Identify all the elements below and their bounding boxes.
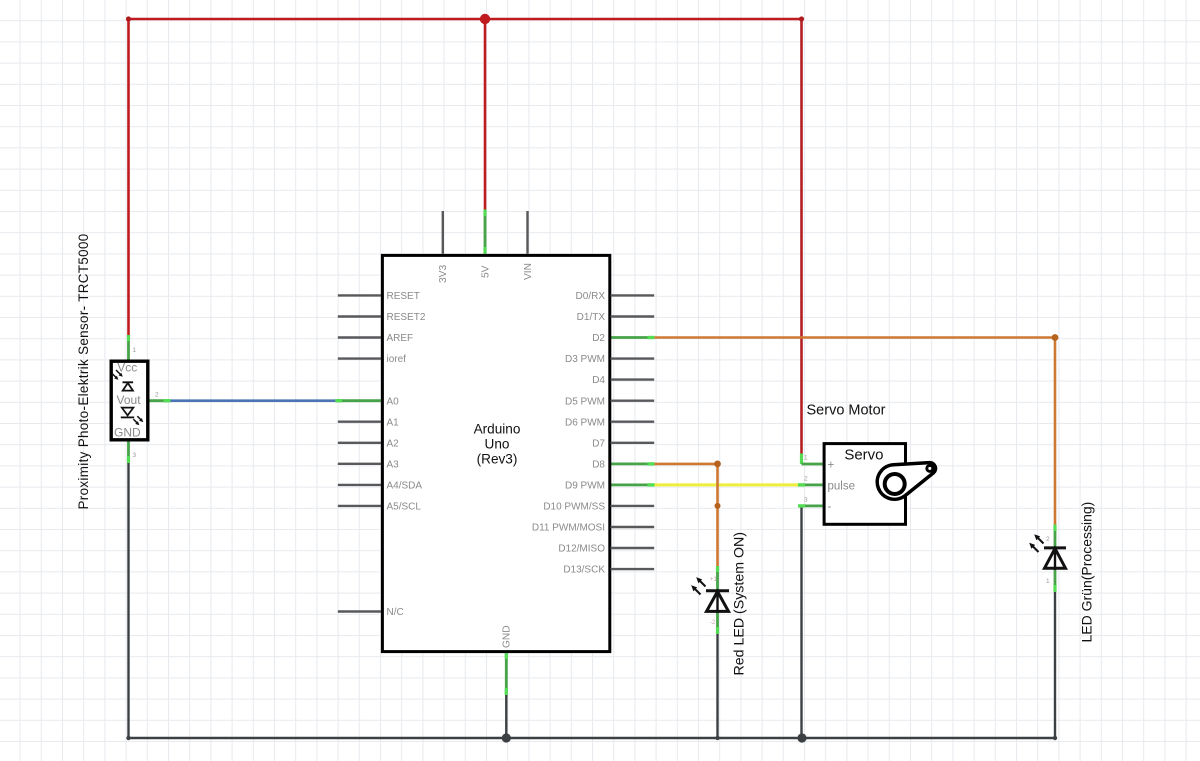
pin ioref stub bbox=[338, 357, 381, 359]
wire: red LED cathode down bbox=[716, 633, 718, 738]
pin D3 stub bbox=[611, 357, 655, 359]
servo horn screw bbox=[927, 465, 933, 471]
svg-text:+: + bbox=[828, 460, 835, 472]
node: gnd rail left corner bbox=[126, 736, 130, 740]
label Arduino Uno (Rev3) bbox=[474, 422, 521, 467]
svg-text:RESET: RESET bbox=[387, 291, 420, 302]
sensor U2 body bbox=[111, 361, 148, 440]
A0 stub green bbox=[335, 399, 381, 402]
svg-text:2: 2 bbox=[1046, 536, 1050, 543]
svg-text:ioref: ioref bbox=[387, 354, 407, 365]
pin AREF stub bbox=[338, 336, 381, 338]
svg-text:2: 2 bbox=[155, 392, 159, 399]
sensor photodiode symbol bbox=[123, 382, 134, 390]
node: orange corner D8 bbox=[714, 461, 721, 468]
red LED pin1 stub bbox=[716, 613, 719, 634]
node: orange corner D2 bbox=[1052, 334, 1059, 341]
pin D13 stub bbox=[611, 568, 655, 570]
svg-text:Vcc: Vcc bbox=[117, 360, 137, 374]
svg-text:Vout: Vout bbox=[117, 393, 142, 407]
LED2 green: cathode bar bbox=[1044, 546, 1066, 549]
svg-text:pulse: pulse bbox=[828, 481, 856, 493]
wire: yellow D9 to servo pulse bbox=[654, 483, 801, 486]
svg-text:N/C: N/C bbox=[387, 607, 404, 618]
svg-text:D0/RX: D0/RX bbox=[576, 291, 606, 302]
node: orange bendpoint bbox=[715, 503, 721, 509]
pin A1 stub bbox=[338, 421, 381, 423]
svg-text:GND: GND bbox=[502, 625, 513, 648]
sensor pin3 stub bbox=[127, 442, 130, 464]
pin A5/SCL stub bbox=[338, 505, 381, 507]
node: red LED junction bbox=[715, 736, 719, 740]
wire: bottom ground rail bbox=[129, 737, 1056, 739]
wire: orange D8 to red LED bbox=[654, 464, 717, 567]
LED1 red: triangle bbox=[707, 592, 729, 612]
node: top rail corner right bbox=[799, 16, 804, 21]
svg-text:VIN: VIN bbox=[523, 263, 534, 280]
svg-text:A0: A0 bbox=[387, 396, 400, 407]
node: gnd rail right corner bbox=[1053, 736, 1057, 740]
sensor pin2 stub bbox=[150, 399, 170, 402]
servo pulse stub bbox=[802, 483, 823, 486]
pin D6 stub bbox=[611, 421, 655, 423]
arduino GND stub green bbox=[505, 653, 508, 696]
red LED pin2 stub bbox=[716, 566, 719, 590]
sensor IR LED symbol bbox=[121, 408, 134, 418]
svg-text:D7: D7 bbox=[592, 438, 605, 449]
svg-text:+1: +1 bbox=[710, 577, 718, 583]
svg-text:2: 2 bbox=[804, 476, 808, 483]
sensor IR LED arrows bbox=[133, 416, 143, 425]
svg-text:D8: D8 bbox=[592, 459, 605, 470]
wire: red vertical to 5V pin bbox=[484, 19, 487, 210]
svg-text:Servo: Servo bbox=[844, 447, 883, 464]
servo horn hub bbox=[885, 474, 905, 494]
svg-text:1: 1 bbox=[133, 347, 137, 354]
servo horn icon bbox=[877, 463, 935, 500]
wire: servo minus down bbox=[800, 506, 802, 738]
pin A3 stub bbox=[338, 463, 381, 465]
svg-text:Uno: Uno bbox=[485, 437, 510, 452]
pin D10 stub bbox=[611, 505, 655, 507]
svg-text:A4/SDA: A4/SDA bbox=[387, 481, 423, 492]
pin D4 stub bbox=[611, 378, 655, 380]
svg-text:A1: A1 bbox=[387, 417, 400, 428]
LED2 green: lead through bbox=[1054, 548, 1056, 570]
D9 stub green bbox=[611, 483, 655, 486]
pin RESET2 stub bbox=[338, 315, 381, 317]
node: 5V junction bbox=[480, 14, 490, 24]
green LED pin2 stub bbox=[1054, 525, 1057, 549]
pin D7 stub bbox=[611, 442, 655, 444]
svg-text:A3: A3 bbox=[387, 459, 400, 470]
svg-text:1: 1 bbox=[804, 455, 808, 462]
svg-text:AREF: AREF bbox=[387, 333, 414, 344]
wire: red vertical to servo + bbox=[800, 19, 803, 454]
wire: top +5V rail bbox=[129, 18, 802, 21]
svg-text:D11 PWM/MOSI: D11 PWM/MOSI bbox=[532, 523, 605, 534]
wire: sensor GND down bbox=[127, 462, 129, 738]
5V stub green bbox=[484, 210, 487, 254]
svg-text:LED Grün(Processing): LED Grün(Processing) bbox=[1079, 502, 1095, 643]
wire: green LED cathode down bbox=[1054, 591, 1056, 738]
green LED pin1 stub bbox=[1054, 570, 1057, 592]
svg-text:A5/SCL: A5/SCL bbox=[387, 502, 422, 513]
arduino U1 body bbox=[382, 255, 609, 651]
servo M1 body bbox=[824, 444, 905, 525]
pin A2 stub bbox=[338, 442, 381, 444]
svg-text:D12/MISO: D12/MISO bbox=[558, 544, 605, 555]
pin D1/TX stub bbox=[611, 315, 655, 317]
LED2 arrows bbox=[1029, 534, 1043, 552]
svg-text:D6 PWM: D6 PWM bbox=[565, 417, 605, 428]
pin D0/RX stub bbox=[611, 294, 655, 296]
sensor photodiode arrows bbox=[112, 370, 123, 380]
svg-text:Red LED (System ON): Red LED (System ON) bbox=[732, 532, 748, 675]
pin VIN stub bbox=[526, 211, 528, 254]
pin 3V3 stub bbox=[442, 211, 444, 254]
svg-text:D1/TX: D1/TX bbox=[577, 312, 606, 323]
pin D11 stub bbox=[611, 526, 655, 528]
LED2 green: triangle bbox=[1045, 549, 1066, 569]
LED1 red: lead through bbox=[716, 591, 718, 613]
svg-text:3: 3 bbox=[133, 452, 137, 459]
svg-text:RESET2: RESET2 bbox=[387, 312, 426, 323]
wire: arduino GND down bbox=[505, 694, 507, 738]
D2 stub green bbox=[611, 336, 655, 339]
svg-text:D9 PWM: D9 PWM bbox=[565, 481, 605, 492]
svg-text:D13/SCK: D13/SCK bbox=[563, 565, 605, 576]
servo minus stub bbox=[802, 504, 823, 507]
svg-text:D4: D4 bbox=[592, 375, 605, 386]
svg-text:GND: GND bbox=[114, 426, 141, 440]
svg-text:3: 3 bbox=[804, 497, 808, 504]
wire: red vertical sensor Vcc bbox=[127, 19, 130, 336]
svg-text:-2: -2 bbox=[710, 620, 716, 626]
servo + stub bbox=[800, 454, 803, 465]
LED1 red: cathode bar bbox=[706, 589, 729, 592]
pin RESET stub bbox=[338, 294, 381, 296]
svg-text:D3 PWM: D3 PWM bbox=[565, 354, 605, 365]
pin D5 stub bbox=[611, 400, 655, 402]
wire: blue Vout to A0 bbox=[170, 399, 336, 402]
pin N/C stub bbox=[338, 610, 381, 612]
wire: orange D2 to green LED bbox=[654, 338, 1055, 526]
svg-text:5V: 5V bbox=[481, 265, 492, 278]
pin D12 stub bbox=[611, 547, 655, 549]
svg-text:A2: A2 bbox=[387, 438, 400, 449]
svg-text:(Rev3): (Rev3) bbox=[477, 452, 518, 467]
svg-text:D10 PWM/SS: D10 PWM/SS bbox=[543, 502, 605, 513]
svg-text:D2: D2 bbox=[592, 333, 605, 344]
svg-text:Proximity Photo-Elektrik Senso: Proximity Photo-Elektrik Sensor- TRCT500… bbox=[76, 233, 91, 509]
LED1 arrows bbox=[691, 577, 705, 594]
svg-text:D5 PWM: D5 PWM bbox=[565, 396, 605, 407]
svg-text:3V3: 3V3 bbox=[438, 265, 449, 283]
svg-text:1: 1 bbox=[1046, 578, 1050, 585]
svg-text:-: - bbox=[828, 501, 832, 513]
svg-text:Servo Motor: Servo Motor bbox=[807, 403, 886, 419]
node: arduino GND junction bbox=[502, 733, 511, 742]
node: top rail corner left bbox=[126, 16, 131, 21]
D8 stub green bbox=[611, 462, 655, 465]
pin A4/SDA stub bbox=[338, 484, 381, 486]
green pin stubs: sensor pin1 bbox=[129, 210, 1056, 696]
node: servo minus junction bbox=[797, 733, 806, 742]
svg-text:Arduino: Arduino bbox=[474, 422, 521, 437]
